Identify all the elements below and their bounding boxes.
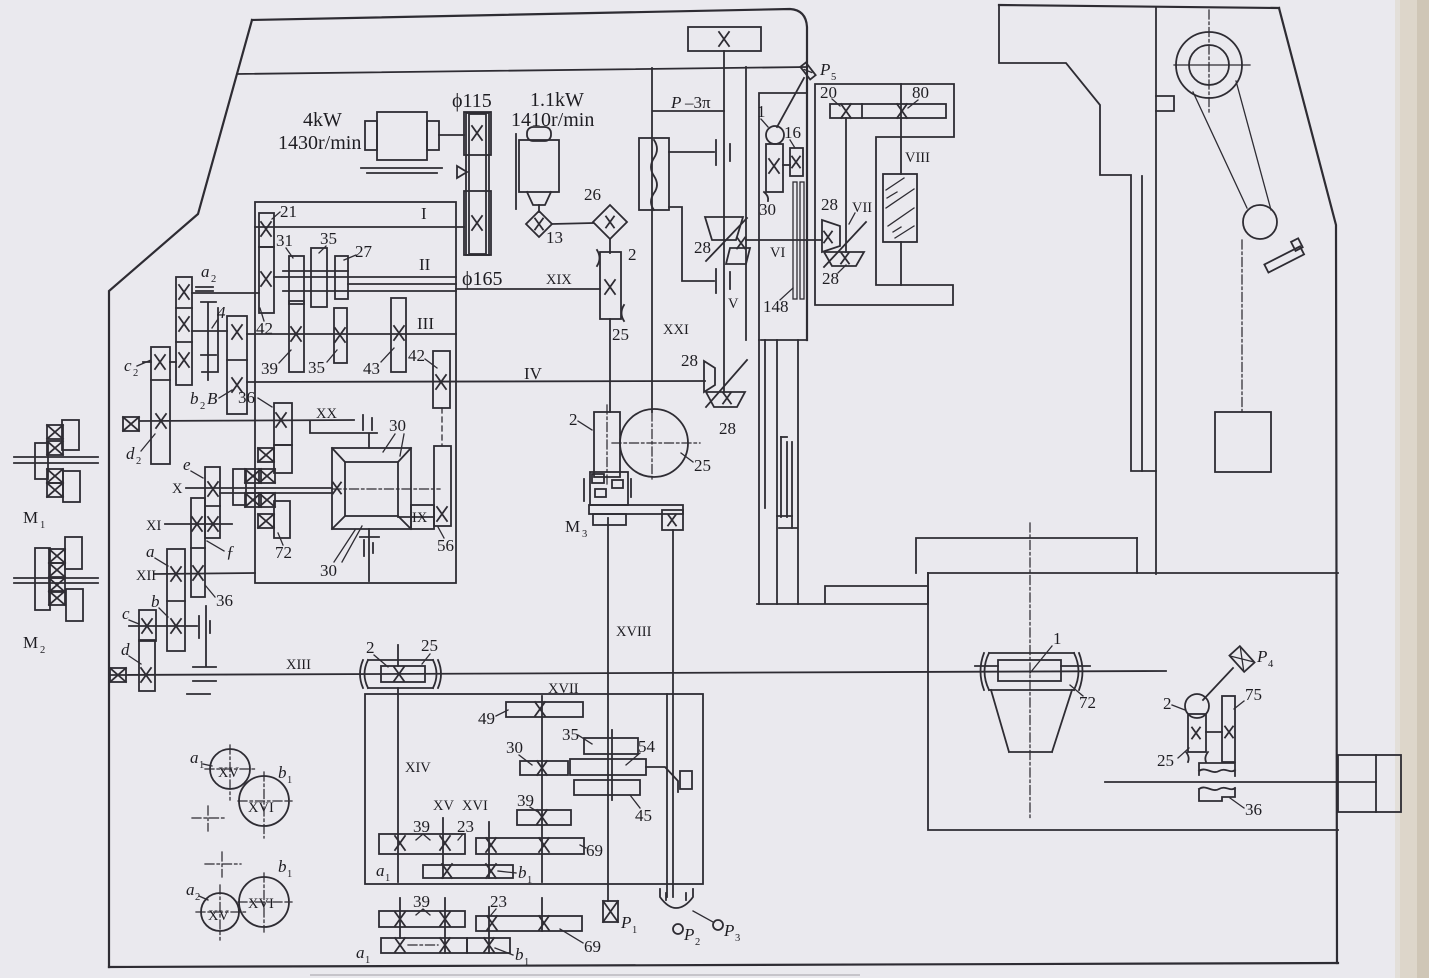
shaft VIII vertical (900, 84, 902, 174)
table centerline (1029, 523, 1031, 818)
svg-text:b: b (278, 763, 287, 782)
gear 45 (574, 780, 640, 795)
bevel pair 28/28 on shaft V bottom (704, 360, 747, 407)
svg-text:1: 1 (199, 760, 204, 771)
shaft V to VII horizontal (746, 239, 822, 241)
wire XXI to V (653, 110, 724, 112)
svg-text:XIII: XIII (286, 657, 311, 673)
intermediate vertical shaft (187, 606, 216, 694)
svg-text:P: P (819, 60, 830, 79)
svg-text:2: 2 (211, 274, 216, 285)
svg-text:1: 1 (524, 957, 529, 968)
svg-text:28: 28 (719, 419, 736, 438)
svg-text:II: II (419, 255, 431, 274)
svg-text:b: b (151, 592, 160, 611)
shaft V (723, 51, 725, 392)
gear pair a1 b1 (423, 865, 513, 878)
gear 35 on III (334, 308, 347, 363)
svg-text:16: 16 (784, 123, 801, 142)
svg-text:25: 25 (694, 456, 711, 475)
svg-text:31: 31 (276, 231, 293, 250)
pressure switch P5 (800, 63, 815, 80)
table feed shaft (1105, 781, 1376, 783)
svg-text:1410r/min: 1410r/min (511, 109, 594, 131)
svg-text:XVI: XVI (462, 798, 488, 814)
shaft III (247, 333, 456, 335)
change gear c2/d2 stack (151, 347, 170, 464)
gear 39 on XVII (517, 810, 571, 825)
svg-text:35: 35 (562, 725, 579, 744)
speed gearbox housing (255, 202, 456, 583)
tension handle (1261, 238, 1306, 272)
crosshairs group 2 (196, 852, 292, 940)
shaft XIX (456, 288, 600, 290)
svg-text:35: 35 (320, 229, 337, 248)
gear 30 on XVII (520, 761, 568, 775)
shaft I (255, 226, 464, 228)
svg-text:36: 36 (216, 591, 233, 610)
machine bed outline (left main body) (252, 9, 807, 340)
svg-text:25: 25 (1157, 751, 1174, 770)
svg-text:XVI: XVI (248, 800, 274, 816)
wire 26 down (609, 239, 611, 253)
gear 56 (434, 446, 451, 526)
gear 69 (476, 838, 584, 854)
spindle sleeve (274, 445, 292, 473)
differential input clutch (310, 421, 377, 448)
shaft IV (247, 381, 705, 382)
svg-text:28: 28 (821, 195, 838, 214)
svg-text:X: X (172, 481, 183, 497)
shaft XXI vertical (651, 68, 653, 412)
svg-text:b: b (518, 863, 527, 882)
clutch on shaft V lower (716, 269, 730, 293)
svg-text:1: 1 (385, 873, 390, 884)
svg-text:1: 1 (287, 775, 292, 786)
crosshairs group 1 (192, 745, 292, 838)
work table box (928, 572, 1338, 574)
svg-text:1430r/min: 1430r/min (278, 132, 361, 154)
svg-text:ϕ115: ϕ115 (452, 90, 492, 112)
limit dog box (662, 510, 683, 530)
svg-text:IX: IX (412, 510, 428, 526)
shaft VII vertical (845, 118, 847, 252)
svg-text:23: 23 (490, 892, 507, 911)
svg-text:56: 56 (437, 536, 454, 555)
hob wheel 25 (620, 409, 688, 477)
svg-text:30: 30 (759, 200, 776, 219)
svg-text:42: 42 (256, 319, 273, 338)
wire coupling lower path (669, 207, 714, 281)
svg-text:13: 13 (546, 228, 563, 247)
svg-text:B: B (207, 389, 218, 408)
svg-text:XV: XV (208, 908, 229, 924)
wire 13-26 (552, 223, 593, 224)
trip rod (672, 530, 674, 897)
svg-text:21: 21 (280, 202, 297, 221)
svg-text:ϕ165: ϕ165 (462, 268, 503, 290)
switch P3 (713, 920, 723, 930)
svg-text:1: 1 (365, 955, 370, 966)
svg-text:P: P (683, 925, 694, 944)
worm 2/25 on shaft XIII (360, 660, 441, 688)
gear 75 (1222, 696, 1235, 762)
svg-text:2: 2 (136, 456, 141, 467)
svg-text:20: 20 (820, 83, 837, 102)
svg-text:XIX: XIX (546, 272, 572, 288)
pick-off pair a1 b1 lower (381, 938, 467, 953)
gear on top of shaft V (688, 27, 761, 51)
svg-text:a: a (146, 542, 155, 561)
sliding link dashed (441, 408, 443, 446)
gear 54 (570, 759, 646, 775)
change gear chart circle XVI b1 (239, 776, 289, 826)
svg-text:5: 5 (831, 72, 836, 83)
shaft IX (398, 516, 434, 518)
svg-text:30: 30 (506, 738, 523, 757)
svg-text:1: 1 (40, 520, 45, 531)
svg-text:3: 3 (582, 529, 587, 540)
belt (466, 113, 489, 255)
output bearing housing (1338, 755, 1401, 812)
belt tension pointer (457, 166, 467, 178)
change gear chart circle XV a1 (210, 749, 250, 789)
scanned page right edge strip (1399, 0, 1429, 978)
column slide rails (759, 340, 798, 604)
wire P4 to roller 2 (1203, 668, 1233, 700)
svg-text:2: 2 (195, 892, 200, 903)
differential lower shaft (368, 529, 370, 581)
svg-text:39: 39 (413, 892, 430, 911)
svg-text:XV: XV (433, 798, 454, 814)
clutch M1 (14, 420, 98, 502)
motor 1.1kW (516, 127, 559, 212)
svg-text:2: 2 (133, 368, 138, 379)
svg-text:XII: XII (136, 568, 156, 584)
svg-text:b: b (515, 945, 524, 964)
shift lever 4 (201, 302, 218, 380)
svg-text:36: 36 (1245, 800, 1262, 819)
machine bottom frame line (109, 963, 1338, 967)
counterweight (1215, 412, 1271, 472)
svg-text:XVII: XVII (548, 681, 579, 697)
svg-text:XI: XI (146, 518, 161, 534)
svg-text:1: 1 (527, 875, 532, 886)
svg-text:P: P (620, 913, 631, 932)
roller 1 (766, 126, 784, 144)
bevel pair 28/28 on shaft VII (822, 220, 866, 267)
shaft XII (155, 573, 255, 574)
belt ropes (1193, 81, 1271, 210)
switch P1 (603, 901, 618, 922)
svg-text:XVIII: XVIII (616, 624, 652, 640)
pick-off gears 39/23 lower row (379, 911, 465, 927)
svg-text:35: 35 (308, 358, 325, 377)
spindle bearing stack (258, 448, 274, 462)
svg-text:69: 69 (586, 841, 603, 860)
svg-text:72: 72 (275, 543, 292, 562)
shaft from worm above (609, 319, 611, 412)
svg-text:2: 2 (628, 245, 637, 264)
right column outline (1279, 8, 1337, 963)
pulley phi115 (464, 112, 491, 155)
shafts XV XVI (443, 818, 489, 878)
pulley phi165 (464, 191, 491, 255)
svg-text:2: 2 (200, 401, 205, 412)
gear 27 (335, 256, 348, 299)
shaft XX (140, 420, 354, 421)
wire c2 (143, 361, 176, 363)
gear 36 on shaft XX (274, 403, 292, 445)
roller 2 (1185, 694, 1209, 718)
svg-text:a: a (186, 880, 195, 899)
gear f (191, 498, 205, 597)
shaft XI (165, 523, 232, 525)
svg-text:26: 26 (584, 185, 601, 204)
bed lower step (757, 573, 928, 604)
svg-text:4: 4 (1268, 659, 1274, 670)
screw nut block VIII (883, 174, 917, 242)
svg-text:a: a (376, 861, 385, 880)
saddle guide line (1141, 176, 1143, 471)
clutch M2 (14, 537, 98, 621)
gear block B/b2 (227, 316, 247, 414)
spindle shaft X (186, 488, 332, 493)
svg-text:M: M (565, 517, 580, 536)
svg-text:IV: IV (524, 364, 543, 383)
svg-text:4kW: 4kW (303, 109, 342, 131)
svg-text:28: 28 (681, 351, 698, 370)
svg-text:XX: XX (316, 406, 337, 422)
gear 49 (506, 702, 583, 717)
svg-text:39: 39 (261, 359, 278, 378)
svg-text:1: 1 (757, 102, 766, 121)
svg-text:72: 72 (1079, 693, 1096, 712)
coupling 13 (526, 211, 552, 237)
tension pulley (1243, 205, 1277, 239)
svg-text:2: 2 (695, 937, 700, 948)
right machine top line (999, 5, 1279, 8)
gear bar 20/80 (830, 104, 946, 118)
gear 42 on II (259, 247, 274, 313)
column ledge notch (1156, 96, 1174, 111)
wire coupling to clutch (669, 151, 714, 153)
svg-text:V: V (728, 296, 739, 312)
clamp 36 upper (1199, 763, 1235, 776)
trip arm (646, 767, 678, 792)
svg-text:M: M (23, 633, 38, 652)
feed gearbox housing (365, 694, 703, 884)
bracket VII outline (815, 84, 954, 305)
rack 148 (793, 182, 797, 299)
svg-text:b: b (278, 857, 287, 876)
svg-text:XIV: XIV (405, 760, 431, 776)
svg-text:VI: VI (770, 245, 785, 261)
table support cone (991, 690, 1072, 752)
svg-text:148: 148 (763, 297, 789, 316)
gear 30 on shaft VI (766, 144, 783, 192)
svg-text:I: I (421, 204, 427, 223)
bevel pair 28/28 on shaft V top (705, 217, 750, 264)
coupling 26 (593, 205, 627, 239)
gear 43 (391, 298, 406, 372)
gear 31 (289, 256, 304, 304)
gear 35 cluster (584, 738, 638, 754)
clutch on shaft V upper (716, 140, 730, 165)
wire a2-B (192, 330, 227, 332)
svg-text:XXI: XXI (663, 322, 689, 338)
bearing on shaft XX left (123, 417, 139, 431)
svg-text:75: 75 (1245, 685, 1262, 704)
switch P2 (673, 924, 683, 934)
svg-text:3: 3 (735, 933, 740, 944)
inner top band line (237, 67, 806, 74)
svg-text:49: 49 (478, 709, 495, 728)
sliding block hub lines (283, 270, 348, 272)
svg-text:23: 23 (457, 817, 474, 836)
svg-text:XV: XV (218, 765, 239, 781)
worm 2 on shaft XIX (597, 250, 624, 321)
table worm wheel 72 (975, 653, 1090, 690)
svg-text:ƒ: ƒ (226, 542, 235, 561)
gear 42 on IV (433, 351, 450, 408)
gears 39/23 on XIV/XV (379, 834, 465, 854)
shaft b-c line with clutch (129, 625, 197, 627)
worm 25 (1188, 714, 1206, 752)
gear 35 on II (311, 248, 327, 307)
shaft II (274, 277, 456, 291)
differential housing (332, 448, 411, 529)
shaft XVII (541, 696, 543, 882)
gear 21 (259, 213, 274, 247)
svg-text:III: III (417, 314, 434, 333)
svg-text:25: 25 (421, 636, 438, 655)
svg-text:P: P (1256, 647, 1267, 666)
svg-text:80: 80 (912, 83, 929, 102)
svg-text:c: c (124, 356, 132, 375)
svg-text:VIII: VIII (905, 150, 930, 166)
svg-text:1: 1 (632, 925, 637, 936)
change gear chart circle XV a2 (201, 893, 239, 931)
svg-text:30: 30 (389, 416, 406, 435)
svg-text:1.1kW: 1.1kW (530, 89, 584, 111)
long feed shaft line XIII extension (111, 671, 1166, 675)
svg-text:69: 69 (584, 937, 601, 956)
svg-text:b: b (190, 389, 199, 408)
svg-text:1: 1 (1053, 629, 1062, 648)
svg-text:2: 2 (569, 410, 578, 429)
svg-text:2: 2 (1163, 694, 1172, 713)
main pulley on right column (1176, 32, 1242, 98)
right column left edge (1155, 8, 1157, 574)
index change pinion P4 (1229, 646, 1254, 672)
gear 72 on spindle (274, 501, 290, 538)
spindle hub (233, 469, 246, 505)
motor 4kW (361, 112, 464, 173)
svg-text:2: 2 (366, 638, 375, 657)
svg-text:27: 27 (355, 242, 373, 261)
svg-text:M: M (23, 508, 38, 527)
carriage guide line (745, 67, 747, 340)
svg-text:45: 45 (635, 806, 652, 825)
svg-text:28: 28 (822, 269, 839, 288)
svg-text:42: 42 (408, 346, 425, 365)
change gear chart circle XVI b1 lower (239, 877, 289, 927)
svg-text:–3π: –3π (684, 93, 711, 112)
svg-text:2: 2 (40, 645, 45, 656)
svg-text:43: 43 (363, 359, 380, 378)
svg-text:30: 30 (320, 561, 337, 580)
gear 39 on III (289, 301, 304, 372)
cluster shaft lines (611, 730, 613, 800)
svg-text:1: 1 (287, 869, 292, 880)
svg-text:e: e (183, 455, 191, 474)
clutch M3 (584, 472, 683, 525)
shaft XVIII (607, 518, 609, 901)
overarm bracket outline (999, 5, 1156, 471)
bearing on shaft XIII left (110, 668, 126, 682)
svg-text:a: a (201, 262, 210, 281)
wire P5 to roller (777, 78, 804, 127)
scan shadow under frame (310, 974, 860, 976)
svg-text:28: 28 (694, 238, 711, 257)
svg-text:d: d (126, 444, 135, 463)
slip coupling P-3pi (639, 138, 669, 210)
trip fork (660, 889, 693, 908)
svg-text:XVI: XVI (248, 896, 274, 912)
svg-text:25: 25 (612, 325, 629, 344)
gear 16 (790, 148, 803, 176)
shaft XIV (397, 645, 399, 882)
svg-text:a: a (190, 748, 199, 767)
svg-text:36: 36 (238, 388, 255, 407)
svg-text:P: P (723, 921, 734, 940)
svg-text:P: P (670, 93, 681, 112)
table slab (916, 538, 1137, 573)
weight cord (1241, 240, 1243, 412)
wire a2 to box (192, 292, 259, 294)
hob head column box (759, 93, 807, 340)
clamp 36 lower (1199, 787, 1235, 801)
pick-off shafts (400, 898, 542, 953)
svg-text:a: a (356, 943, 365, 962)
svg-text:39: 39 (413, 817, 430, 836)
